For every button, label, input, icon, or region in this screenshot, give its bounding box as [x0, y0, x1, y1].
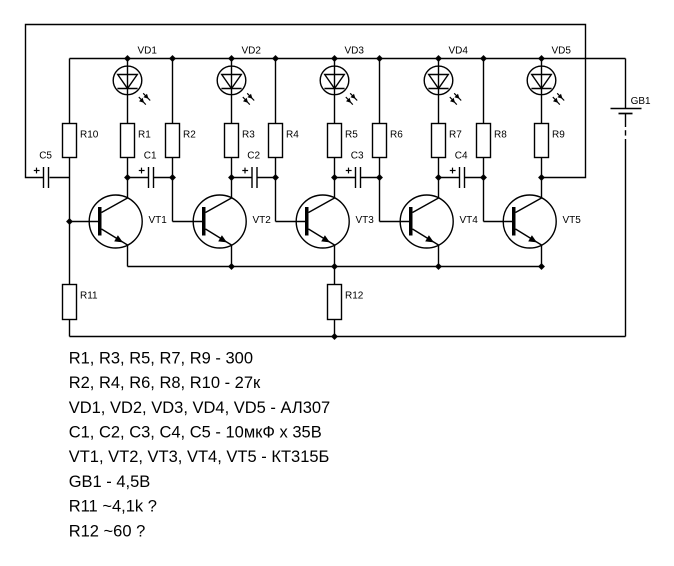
node VD3 at supply rail	[331, 55, 337, 61]
svg-text:R4: R4	[286, 130, 299, 141]
LED VD5	[527, 46, 571, 105]
wire R8 column from supply rail	[483, 59, 485, 124]
wire R3 bottom to VT2 collector node	[231, 158, 233, 178]
node R4 at supply rail	[272, 55, 278, 61]
node R3 bottom / VT2 collector	[228, 174, 234, 180]
node R2 at supply rail	[169, 55, 175, 61]
capacitor C2	[232, 151, 276, 188]
wire R4 bottom to VT3 base drop	[275, 158, 277, 222]
node VT1 base junction	[66, 218, 72, 224]
resistor R6	[373, 124, 404, 158]
LED VD4	[424, 46, 468, 105]
svg-text:R11 ~4,1k ?: R11 ~4,1k ?	[69, 498, 157, 516]
wire R1 bottom to VT1 collector node	[127, 158, 129, 178]
resistor R9	[535, 124, 566, 158]
wire R10 top drop from supply rail	[69, 59, 71, 124]
node R6 bottom / C3 right plate	[376, 174, 382, 180]
svg-text:R5: R5	[345, 130, 358, 141]
node R8 at supply rail	[480, 55, 486, 61]
node R2 bottom / C1 right plate	[169, 174, 175, 180]
wire VD2 column: rail through LED to R3 top	[231, 59, 233, 124]
node R4 bottom / C2 right plate	[272, 174, 278, 180]
node VT4 emitter	[435, 263, 441, 269]
wire R10 bottom through C5 tee and VT1 base node to R11 top	[69, 158, 71, 285]
LED VD3	[320, 46, 364, 105]
wire battery positive drop	[625, 59, 627, 109]
node R6 at supply rail	[376, 55, 382, 61]
wire R9 bottom to VT5 collector node	[541, 158, 543, 178]
wire R12 bottom to ground rail	[334, 320, 336, 337]
wire R11 bottom to ground rail	[69, 320, 71, 337]
capacitor C4	[439, 151, 484, 188]
svg-text:C1: C1	[144, 151, 157, 162]
svg-text:R1: R1	[138, 130, 151, 141]
transistor VT3	[296, 178, 374, 267]
wire R7 bottom to VT4 collector node	[438, 158, 440, 178]
resistor R11	[63, 285, 99, 320]
wire VD3 column: rail through LED to R5 top	[334, 59, 336, 124]
capacitor C1	[128, 151, 173, 188]
svg-text:R12: R12	[345, 291, 364, 302]
svg-text:C4: C4	[455, 151, 468, 162]
svg-text:R7: R7	[449, 130, 462, 141]
svg-text:R10: R10	[80, 130, 99, 141]
node VD5 at supply rail	[538, 55, 544, 61]
wire R2 column from supply rail	[172, 59, 174, 124]
svg-text:VD4: VD4	[449, 46, 469, 57]
transistor VT1	[89, 178, 167, 267]
svg-text:VD1, VD2, VD3, VD4, VD5 - АЛ30: VD1, VD2, VD3, VD4, VD5 - АЛ307	[69, 399, 331, 417]
node VT2 emitter	[228, 263, 234, 269]
battery GB1	[611, 96, 652, 336]
svg-text:VD5: VD5	[552, 46, 572, 57]
wire VT4 base horizontal	[380, 221, 413, 223]
svg-text:VT1: VT1	[149, 215, 168, 226]
resistor R8	[477, 124, 508, 158]
resistor R5	[328, 124, 359, 158]
resistor R10	[63, 124, 99, 158]
svg-text:VT2: VT2	[253, 215, 272, 226]
svg-text:R2, R4, R6, R8, R10 - 27к: R2, R4, R6, R8, R10 - 27к	[69, 374, 261, 392]
wire VT3 base horizontal	[276, 221, 309, 223]
wire R5 bottom to VT3 collector node	[334, 158, 336, 178]
transistor VT4	[400, 178, 478, 267]
capacitor C3	[335, 151, 380, 188]
svg-text:VT4: VT4	[460, 215, 479, 226]
wire positive supply rail (LED rail)	[70, 58, 626, 60]
node VD1 at supply rail	[124, 55, 130, 61]
wire R2 bottom to VT2 base drop	[172, 158, 174, 222]
resistor R7	[432, 124, 463, 158]
wire VD5 column: rail through LED to R9 top	[541, 59, 543, 124]
resistor R2	[166, 124, 197, 158]
wire VT2 base horizontal	[173, 221, 206, 223]
svg-text:C2: C2	[247, 151, 260, 162]
svg-text:R1, R3, R5, R7, R9 - 300: R1, R3, R5, R7, R9 - 300	[69, 349, 253, 367]
svg-text:R6: R6	[390, 130, 403, 141]
wire feedback loop: VT5 collector node to C5 left plate via top rail	[26, 25, 586, 178]
node R9 bottom / VT5 collector	[538, 174, 544, 180]
wire R6 column from supply rail	[379, 59, 381, 124]
resistor R1	[121, 124, 152, 158]
wire emitter rail	[128, 266, 542, 268]
svg-text:C5: C5	[39, 151, 52, 162]
node R12 at ground rail	[331, 333, 337, 339]
node VD4 at supply rail	[435, 55, 441, 61]
resistor R12	[328, 285, 364, 320]
LED VD1	[113, 46, 157, 105]
wire VD1 column: rail through LED to R1 top	[127, 59, 129, 124]
svg-text:VT3: VT3	[356, 215, 375, 226]
svg-text:VT5: VT5	[563, 215, 582, 226]
svg-text:R9: R9	[552, 130, 565, 141]
LED VD2	[217, 46, 261, 105]
node VD2 at supply rail	[228, 55, 234, 61]
svg-text:C3: C3	[351, 151, 364, 162]
node VT3 emitter / R12 top	[331, 263, 337, 269]
transistor VT2	[193, 178, 271, 267]
wire ground/negative rail	[70, 336, 626, 338]
svg-text:R12 ~60 ?: R12 ~60 ?	[69, 522, 146, 540]
svg-text:GB1: GB1	[631, 96, 651, 107]
svg-text:R11: R11	[80, 291, 98, 302]
wire R4 column from supply rail	[275, 59, 277, 124]
wire VD4 column: rail through LED to R7 top	[438, 59, 440, 124]
node R5 bottom / VT3 collector	[331, 174, 337, 180]
svg-text:C1, C2, C3, C4, C5 - 10мкФ х 3: C1, C2, C3, C4, C5 - 10мкФ х 35В	[69, 424, 322, 442]
node R8 bottom / C4 right plate	[480, 174, 486, 180]
wire VT1 base horizontal	[70, 221, 102, 223]
resistor R3	[225, 124, 256, 158]
transistor VT5	[503, 178, 581, 267]
wire R8 bottom to VT5 base drop	[483, 158, 485, 222]
svg-text:R2: R2	[183, 130, 196, 141]
svg-text:VT1, VT2, VT3, VT4, VT5 - КТ31: VT1, VT2, VT3, VT4, VT5 - КТ315Б	[69, 448, 330, 466]
svg-text:VD3: VD3	[345, 46, 365, 57]
node R7 bottom / VT4 collector	[435, 174, 441, 180]
capacitor C5	[34, 151, 70, 188]
svg-text:R8: R8	[494, 130, 507, 141]
svg-text:R3: R3	[242, 130, 255, 141]
wire R6 bottom to VT4 base drop	[379, 158, 381, 222]
svg-text:VD1: VD1	[138, 46, 158, 57]
wire R12 top from emitter rail	[334, 267, 336, 285]
node VT5 emitter	[538, 263, 544, 269]
node R1 bottom / VT1 collector	[124, 174, 130, 180]
svg-text:VD2: VD2	[242, 46, 262, 57]
svg-text:GB1 - 4,5В: GB1 - 4,5В	[69, 473, 151, 491]
resistor R4	[269, 124, 300, 158]
wire VT5 base horizontal	[484, 221, 516, 223]
